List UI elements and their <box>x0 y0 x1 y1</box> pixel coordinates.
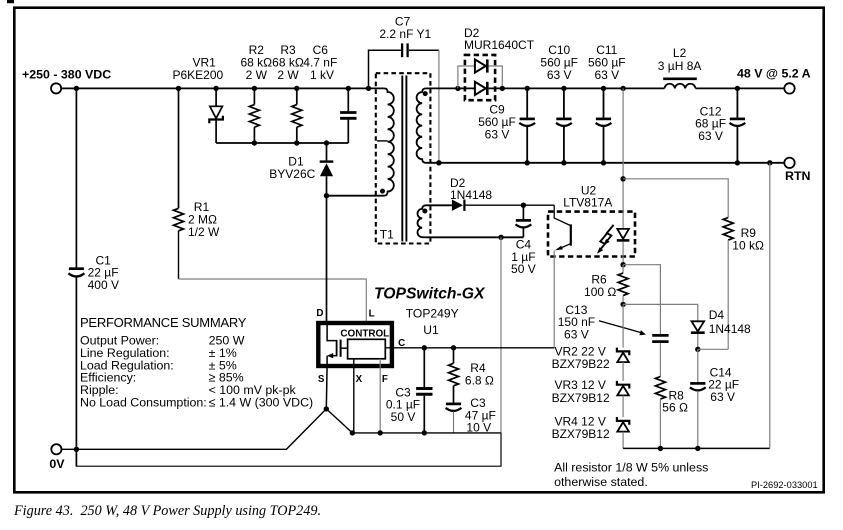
svg-text:L: L <box>369 309 375 320</box>
wire secondary return rail <box>439 162 784 164</box>
capacitor C4 1uF 50V <box>511 205 536 276</box>
svg-text:TOPSwitch-GX: TOPSwitch-GX <box>374 285 486 302</box>
wire sense to R9 <box>623 179 728 218</box>
capacitor C9 560uF 63V <box>478 88 535 162</box>
resistor R6 100 <box>584 265 628 305</box>
svg-text:MUR1640CT: MUR1640CT <box>464 38 535 52</box>
node R6 bottom junction <box>620 302 625 307</box>
node R3 top <box>294 86 299 91</box>
wire C7 right drop to secondary return <box>438 50 440 163</box>
svg-text:BZX79B22: BZX79B22 <box>552 357 610 371</box>
node R6 top junction <box>620 262 625 267</box>
svg-text:63 V: 63 V <box>547 68 572 82</box>
svg-text:+250 - 380 VDC: +250 - 380 VDC <box>22 67 111 81</box>
note resistor tolerance <box>554 460 708 489</box>
svg-text:1 kV: 1 kV <box>310 68 334 82</box>
caption <box>14 503 321 520</box>
svg-text:400 V: 400 V <box>88 278 119 292</box>
terminal 0V <box>49 444 65 471</box>
node S pin junction <box>324 406 329 411</box>
node R8 bottom <box>658 446 663 451</box>
node C10 bottom <box>561 160 566 165</box>
zener VR2 22V BZX79B22 <box>552 304 630 371</box>
svg-text:P6KE200: P6KE200 <box>173 68 224 82</box>
svg-text:RTN: RTN <box>785 169 811 183</box>
capacitor C3 0.1uF 50V <box>386 348 433 433</box>
node X pin bottom <box>350 430 355 435</box>
wire 0V rail <box>62 409 327 449</box>
capacitor C12 68uF 63V <box>695 88 745 162</box>
resistor R9 10k <box>723 218 764 350</box>
svg-text:48 V @ 5.2 A: 48 V @ 5.2 A <box>737 67 811 81</box>
svg-text:TOP249Y: TOP249Y <box>406 306 459 320</box>
capacitor C10 560uF 63V <box>540 43 578 163</box>
node LED anode junction <box>620 176 625 181</box>
node primary polarity dot <box>380 189 385 194</box>
svg-text:63 V: 63 V <box>594 68 619 82</box>
capacitor C1 22uF 400V <box>68 253 119 292</box>
node input bus junction <box>74 86 79 91</box>
resistor R2 68k 2W <box>240 43 272 143</box>
svg-text:2 W: 2 W <box>277 68 299 82</box>
transistor U2 phototransistor <box>554 205 571 348</box>
diode D2 MUR1640CT dual <box>458 26 535 100</box>
node C9 bottom <box>525 160 530 165</box>
node D1 cathode junction <box>324 140 329 145</box>
svg-text:CONTROL: CONTROL <box>340 329 389 340</box>
label TOPSwitch-GX <box>374 285 486 337</box>
transformer primary winding <box>327 88 394 195</box>
node C12 bottom <box>735 160 740 165</box>
svg-text:No Load Consumption:: No Load Consumption: <box>80 395 207 409</box>
inductor L2 3uH 8A <box>658 46 702 88</box>
node C7 drop junction <box>436 160 441 165</box>
node C6 top <box>346 86 351 91</box>
node F pin bottom <box>378 430 383 435</box>
svg-text:6.8 Ω: 6.8 Ω <box>465 373 494 387</box>
wire drain to U1 D pin <box>326 196 328 322</box>
wire top bus (primary) <box>61 87 384 89</box>
resistor R4 6.8 <box>449 348 494 388</box>
svg-text:≤ 1.4 W (300 VDC): ≤ 1.4 W (300 VDC) <box>209 395 314 409</box>
svg-text:D: D <box>316 308 323 319</box>
svg-text:D4: D4 <box>709 308 725 322</box>
node R2 top <box>252 86 257 91</box>
node bias polarity dot <box>422 209 427 214</box>
capacitor C6 4.7nF 1kV <box>303 43 356 143</box>
svg-text:U1: U1 <box>423 323 439 337</box>
capacitor C7 2.2nF Y1 <box>369 15 439 89</box>
diode D1 BYV26C <box>269 143 333 196</box>
wire feedback return riser <box>769 163 771 449</box>
node D4 anode junction <box>695 347 700 352</box>
wire primary tap stub <box>377 140 388 142</box>
wire D4 to R9 bottom <box>698 348 728 350</box>
node C12 top <box>735 86 740 91</box>
resistor R8 56 <box>655 377 688 449</box>
svg-text:50 V: 50 V <box>511 262 536 276</box>
transformer secondary winding <box>417 88 458 162</box>
wire R1 to L pin <box>179 279 367 321</box>
LED U2 (opto) <box>617 88 630 264</box>
svg-text:1/2 W: 1/2 W <box>188 225 220 239</box>
node C7 left <box>366 86 371 91</box>
node R3 bottom <box>294 140 299 145</box>
node sense tap <box>620 86 625 91</box>
transistor U1 MOSFET <box>327 323 348 366</box>
svg-text:BZX79B12: BZX79B12 <box>552 427 610 441</box>
op-amp U2 LTV817A optocoupler box <box>548 183 635 256</box>
LED light arrows <box>597 225 614 254</box>
svg-text:63 V: 63 V <box>485 128 510 142</box>
transformer core <box>402 76 406 242</box>
svg-text:1N4148: 1N4148 <box>709 322 751 336</box>
resistor R3 68k 2W <box>272 43 304 143</box>
svg-text:S: S <box>318 374 325 385</box>
node bias return junction <box>498 235 503 240</box>
node drain junction <box>324 193 329 198</box>
node feedback return junction <box>767 160 772 165</box>
node rectifier cathode junction <box>500 86 505 91</box>
svg-text:PERFORMANCE SUMMARY: PERFORMANCE SUMMARY <box>80 315 247 330</box>
node C3 bottom <box>422 430 427 435</box>
svg-text:3 µH 8A: 3 µH 8A <box>658 59 702 73</box>
wire left vertical bus to 0V <box>75 88 77 466</box>
node secondary polarity dot <box>423 91 428 96</box>
svg-text:F: F <box>382 374 388 385</box>
svg-text:2 W: 2 W <box>246 68 268 82</box>
svg-text:BZX79B12: BZX79B12 <box>552 391 610 405</box>
svg-text:56 Ω: 56 Ω <box>662 401 688 415</box>
input terminal +250-380 VDC <box>22 67 111 93</box>
node C9 top <box>525 86 530 91</box>
svg-text:50 V: 50 V <box>391 410 416 424</box>
node 0V junction <box>74 447 79 452</box>
wire output bus after L2 <box>696 87 785 89</box>
performance summary <box>80 315 313 409</box>
node R2 bottom <box>252 140 257 145</box>
node C11 top <box>601 86 606 91</box>
wire secondary top bus <box>489 87 665 89</box>
svg-text:63 V: 63 V <box>698 129 723 143</box>
svg-text:LTV817A: LTV817A <box>563 196 612 210</box>
node C10 top <box>561 86 566 91</box>
capacitor C11 560uF 63V <box>588 43 626 163</box>
wire feedback bottom rail <box>623 447 770 449</box>
wire U1 C pin line <box>385 347 554 349</box>
op-amp U1 TOP249Y block <box>318 323 392 366</box>
svg-text:X: X <box>356 374 363 385</box>
capacitor C13 150nF 63V <box>558 265 669 377</box>
svg-text:1N4148: 1N4148 <box>450 188 492 202</box>
node C11 bottom <box>601 160 606 165</box>
wire bias return drop <box>500 237 502 433</box>
node R1 top <box>176 86 181 91</box>
wire D2 cathode to opto collector <box>466 204 555 206</box>
pin labels U1 <box>316 308 405 385</box>
node R4 top <box>451 345 456 350</box>
svg-text:10 kΩ: 10 kΩ <box>732 239 764 253</box>
wire U1 internal X F leads <box>354 359 380 433</box>
transformer bias winding <box>418 205 524 237</box>
svg-text:All resistor 1/8 W 5% unless: All resistor 1/8 W 5% unless <box>554 460 708 474</box>
wire primary return loop <box>76 433 501 466</box>
svg-text:otherwise stated.: otherwise stated. <box>554 475 648 489</box>
svg-text:63 V: 63 V <box>564 328 589 342</box>
RTN terminal <box>784 158 810 183</box>
svg-text:2.2 nF Y1: 2.2 nF Y1 <box>379 27 431 41</box>
node secondary top junction <box>455 86 460 91</box>
resistor R1 2M 1/2W <box>174 88 221 279</box>
node C4 top <box>521 203 526 208</box>
wire clamp rail <box>216 142 348 144</box>
svg-text:PI-2692-033001: PI-2692-033001 <box>751 480 818 490</box>
capacitor C3 47uF 10V <box>446 386 496 435</box>
node C14 bottom <box>695 446 700 451</box>
transformer T1 dashed box <box>376 73 431 243</box>
node C3 top <box>422 345 427 350</box>
capacitor C14 22uF 63V <box>690 349 739 448</box>
svg-text:BYV26C: BYV26C <box>269 167 315 181</box>
diode D4 1N4148 <box>623 304 751 349</box>
zener VR4 12V BZX79B12 <box>552 395 630 448</box>
zener VR1 P6KE200 <box>173 56 224 144</box>
zener VR3 12V BZX79B12 <box>552 362 630 405</box>
svg-text:100 Ω: 100 Ω <box>584 285 616 299</box>
wire S to X diagonal and SXF rail <box>326 409 501 433</box>
svg-text:63 V: 63 V <box>710 390 735 404</box>
output terminal 48V <box>737 67 811 94</box>
diode D2 1N4148 (bias) <box>450 176 492 211</box>
svg-text:0V: 0V <box>49 457 65 471</box>
svg-text:C: C <box>398 338 405 349</box>
svg-text:T1: T1 <box>380 228 394 242</box>
wire U1 S pin lead <box>325 366 328 409</box>
node VR1 top <box>213 86 218 91</box>
